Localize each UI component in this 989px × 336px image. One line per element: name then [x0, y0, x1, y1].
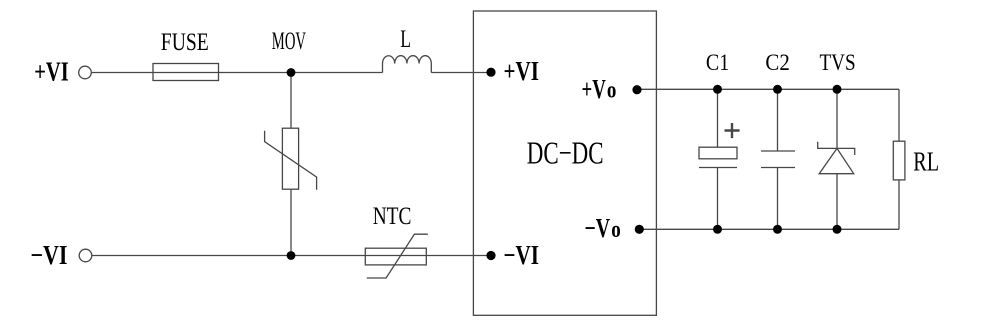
node +Vo dot [632, 85, 641, 94]
svg-text:−V: −V [585, 213, 611, 243]
capacitor C1 bottom lead [717, 168, 719, 230]
wire +Vo node to RL corner [637, 88, 899, 90]
thermistor NTC diagonal stroke [367, 234, 428, 278]
node -Vo dot [635, 225, 644, 234]
svg-text:C1: C1 [706, 50, 729, 75]
svg-text:L: L [400, 26, 411, 53]
resistor RL bottom lead [898, 180, 900, 229]
fuse FUSE body [153, 64, 219, 81]
svg-text:o: o [611, 217, 621, 243]
capacitor C2 bottom lead [777, 168, 779, 230]
wire inductor to +VI input node [431, 72, 491, 74]
wire -VI terminal to -VI input node [92, 255, 491, 257]
varistor MOV diagonal stroke [265, 131, 317, 190]
wire +VI terminal to MOV node to inductor [92, 72, 383, 74]
DC-DC converter box [473, 11, 656, 315]
node TVS bottom dot [833, 225, 842, 234]
node C2 top dot [773, 85, 782, 94]
capacitor C2 top lead [777, 89, 779, 151]
node MOV junction dot [287, 68, 296, 77]
capacitor C1 negative plate [699, 167, 737, 169]
capacitor C1 top lead [717, 89, 719, 147]
svg-text:MOV: MOV [272, 28, 306, 55]
terminal -VI circle [79, 249, 92, 262]
svg-text:TVS: TVS [820, 50, 856, 75]
label +Vo [582, 74, 617, 104]
svg-text:NTC: NTC [373, 203, 412, 230]
node C1 top dot [713, 85, 722, 94]
wire varistor to bottom rail [290, 189, 292, 255]
svg-text:+V: +V [582, 74, 607, 104]
svg-text:+VI: +VI [34, 56, 68, 86]
capacitor C2 top plate [761, 150, 795, 152]
diode TVS top lead [836, 89, 838, 148]
svg-text:+VI: +VI [504, 56, 540, 86]
capacitor C1 positive plate [699, 147, 737, 159]
resistor RL body [893, 141, 905, 180]
capacitor C2 bottom plate [761, 167, 795, 169]
label -Vo [585, 213, 621, 243]
wire MOV node down to varistor [290, 73, 292, 129]
inductor L [383, 56, 432, 73]
svg-text:C2: C2 [765, 50, 789, 75]
svg-text:RL: RL [913, 146, 939, 176]
varistor MOV body [282, 128, 298, 189]
diode TVS bottom lead [836, 174, 838, 230]
diode TVS triangle [819, 148, 854, 173]
capacitor C1 plus polarity mark [725, 123, 740, 138]
resistor RL top lead [898, 89, 900, 141]
svg-text:−VI: −VI [504, 240, 540, 270]
terminal +VI circle [79, 66, 92, 79]
wire -Vo node to RL bottom corner [639, 228, 899, 230]
node -VI input dot [486, 251, 495, 260]
thermistor NTC body [365, 248, 426, 265]
node TVS top dot [833, 85, 842, 94]
svg-text:DC−DC: DC−DC [527, 134, 604, 170]
node C1 bottom dot [713, 225, 722, 234]
svg-text:−VI: −VI [31, 240, 68, 270]
node C2 bottom dot [773, 225, 782, 234]
node +VI input dot [486, 68, 495, 77]
diode TVS cathode bar with zener hooks [818, 142, 855, 155]
svg-text:o: o [607, 78, 617, 104]
svg-text:FUSE: FUSE [161, 29, 209, 56]
node bottom rail junction dot [287, 251, 296, 260]
